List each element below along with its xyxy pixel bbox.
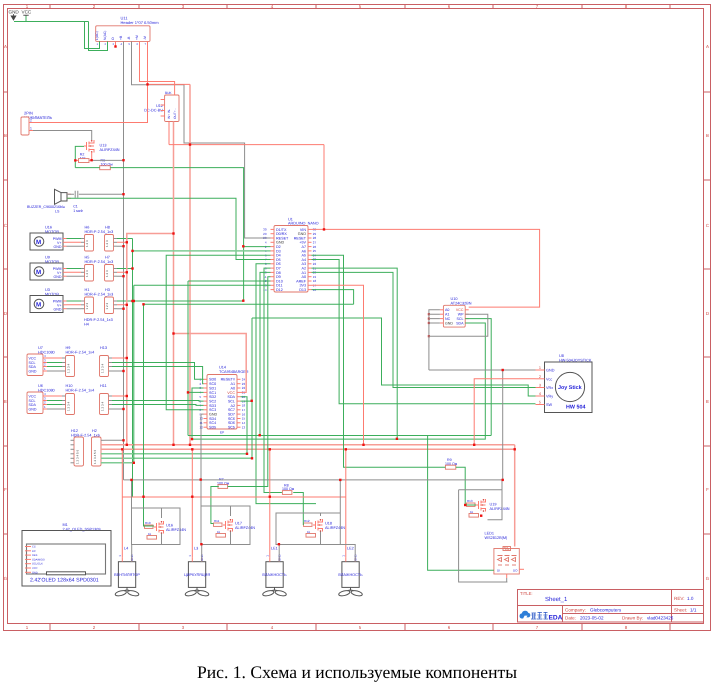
svg-text:ВЛАЖНОСТЬ: ВЛАЖНОСТЬ [262,573,287,577]
svg-text:L4: L4 [124,547,128,551]
svg-text:G: G [706,576,710,581]
resistor R13 (gate U19) [467,499,479,517]
wire motor3 V+ [67,304,127,306]
wire motor1 V+ drop [121,449,123,557]
svg-text:D: D [4,311,7,316]
svg-text:ALIRFZ44N: ALIRFZ44N [166,528,186,532]
wire DC-DC out short [168,122,170,145]
wire gnd loop C [276,480,355,562]
svg-text:Company:: Company: [565,608,586,613]
svg-text:A1: A1 [445,313,449,317]
svg-text:A0: A0 [230,386,235,390]
wire U10 SDA link [192,323,485,439]
resistor R8 [282,483,295,494]
svg-text:HW 504: HW 504 [566,405,585,411]
wire header pin3 stub [115,41,117,46]
svg-text:EDA: EDA [549,615,563,622]
transistor U19 IRFZ44N [476,499,510,512]
wire arduino D8 drop [260,272,271,435]
svg-text:1: 1 [539,366,541,370]
svg-text:REV:: REV: [674,596,685,601]
svg-text:3: 3 [539,384,541,388]
svg-text:1 2 3 4 5 6: 1 2 3 4 5 6 [93,449,97,464]
svg-text:4: 4 [539,392,541,396]
svg-text:2: 2 [30,119,32,123]
wire GND to header pin1 [14,22,100,49]
svg-text:A: A [4,44,7,49]
wire TCA VCC feed [174,334,247,392]
sensor U7 HDC1080 [27,346,55,376]
wire U10 gray tie loop [429,310,488,336]
connector H8 [105,226,118,252]
wire VCC to header pin2 [26,16,108,51]
svg-text:GND: GND [54,307,62,311]
wire LED1 VCC drop [514,445,516,547]
joystick U8 HW-504 [536,354,593,413]
wire green bus tail [133,496,144,498]
wire HDC1 SCL [47,363,204,380]
wire red feed to arduino VIN [169,145,324,230]
wire HDC1 VCC [47,357,127,359]
svg-text:Vcc: Vcc [546,377,552,381]
wire arduino A4 to joystick SW [312,260,536,404]
wire buzzer green to arduino D3 [67,198,271,259]
svg-text:L(AC): L(AC) [95,31,99,40]
svg-text:RESET#: RESET# [221,378,236,382]
svg-text:L3: L3 [194,547,198,551]
svg-text:AT24C32BN: AT24C32BN [451,301,472,305]
wire motor1 GND [67,245,124,247]
svg-text:N(AC): N(AC) [103,31,107,40]
svg-text:SD5: SD5 [209,426,216,430]
resistor R12 (gate U18) [304,519,316,537]
svg-text:ВЛАЖНОСТЬ: ВЛАЖНОСТЬ [338,573,363,577]
wire gnd loop D [459,480,508,582]
svg-text:H4: H4 [84,322,89,326]
svg-text:GND: GND [445,321,453,325]
svg-text:SDA: SDA [29,403,37,407]
wire header pin4 gray bus [123,41,125,480]
svg-text:M: M [36,302,41,309]
wire buzzer gray to bus [67,193,124,195]
connector H7 [105,256,118,282]
wire PWM green bus vertical [132,239,134,498]
svg-text:1 2 3: 1 2 3 [105,270,109,277]
wire LED DIN drop [428,436,494,571]
svg-text:SD3: SD3 [209,404,216,408]
svg-text:U13: U13 [100,144,107,148]
svg-text:ALIRFZ44N: ALIRFZ44N [490,507,510,511]
wire header pin7 to 2PIN [33,41,148,122]
svg-text:C1: C1 [73,205,78,209]
svg-text:GND: GND [54,245,62,249]
svg-text:Drawn By:: Drawn By: [622,616,643,621]
svg-text:1k: 1k [148,532,152,536]
svg-text:G: G [4,576,8,581]
eeprom U10 AT24C32BN [428,297,472,337]
wire H2 pin1 gray [105,439,124,441]
wire R8 gate line [264,268,304,525]
svg-text:1k: 1k [470,510,474,514]
wire trunk green D / arduino D10 [188,281,491,436]
svg-text:D13: D13 [299,288,306,292]
svg-text:U19: U19 [490,503,497,507]
svg-text:HDR-F-2.54_1x3: HDR-F-2.54_1x3 [85,292,114,296]
wire HDC1 GND [47,370,124,372]
svg-text:LE2: LE2 [347,547,354,551]
svg-text:+M: +M [135,35,139,40]
wire gnd loop B [201,480,250,562]
svg-text:C: C [4,223,7,228]
wire HDC2 GND [47,408,124,410]
svg-text:1 мкФ: 1 мкФ [73,209,83,213]
svg-text:SC4: SC4 [209,421,216,425]
svg-text:vlad0423426: vlad0423426 [647,616,674,621]
svg-text:D: D [706,311,709,316]
transistor U18 IRFZ44N [313,519,345,532]
svg-text:DC: DC [32,550,36,553]
wire joystick Vcc [474,379,535,445]
led LED1 WS2812B [485,532,525,579]
svg-text:B: B [4,133,7,138]
svg-text:HDR-F-2.54_1x3: HDR-F-2.54_1x3 [85,260,114,264]
svg-text:SW: SW [546,403,553,407]
wire motor3 GND [67,308,124,310]
wire arduino D6 drop [256,264,316,504]
svg-text:HDR-F-2.54_1x4: HDR-F-2.54_1x4 [66,350,95,354]
wire arduino A1 to joystick VRx [312,272,536,387]
svg-text:1 2 3 4: 1 2 3 4 [66,363,70,373]
svg-text:2023-05-02: 2023-05-02 [580,616,604,621]
svg-text:ALIRFZ44N: ALIRFZ44N [325,526,345,530]
svg-text:1 2 3: 1 2 3 [85,302,89,309]
svg-text:WS2812B(M): WS2812B(M) [485,536,509,540]
i2c mux U14 TCA9548ARGER [200,366,249,435]
wire TCA GND riser [201,414,204,506]
wire HDC2 VCC [47,395,127,397]
svg-text:DI: DI [497,569,500,573]
svg-text:IN+ IN-: IN+ IN- [167,109,171,119]
wire power rail 2 [101,448,515,450]
svg-text:5: 5 [539,401,541,405]
svg-text:1 2 3 4 5 6: 1 2 3 4 5 6 [76,449,80,464]
svg-text:H7: H7 [105,256,110,260]
svg-text:H3: H3 [105,288,110,292]
svg-text:LE1: LE1 [271,547,278,551]
svg-text:VCC: VCC [29,394,37,398]
svg-text:H11: H11 [100,384,107,388]
svg-text:13: 13 [242,425,246,429]
wire motor2 GND [67,275,124,277]
svg-text:22: 22 [242,386,246,390]
wire R6 green line to arduino D2 [75,168,270,301]
svg-text:1.0: 1.0 [687,596,694,601]
svg-text:VCC: VCC [227,391,235,395]
connector H3 [84,288,117,326]
svg-text:VCC: VCC [456,308,464,312]
svg-text:SDA: SDA [456,321,464,325]
regulator U12 DC-DC [144,91,179,122]
svg-text:24: 24 [242,378,246,382]
svg-text:ЦИРКУЛЯЦИЯ: ЦИРКУЛЯЦИЯ [184,573,210,577]
svg-text:1 2 3: 1 2 3 [85,270,89,277]
wire motor V+ tie [122,496,345,498]
motor L4 вентилятор [114,547,140,597]
motor LE1 влажность [262,547,287,597]
svg-text:VCC: VCC [22,10,32,15]
mcu U1 ARDUINO_NANO [263,218,318,293]
motor U3 [30,288,67,313]
svg-text:EP: EP [220,431,224,435]
connector H5 [81,256,113,282]
svg-text:SDA: SDA [227,395,235,399]
wire gnd line bottom [124,479,503,481]
wire motor2 PWM [67,268,133,270]
connector H1 [81,288,113,314]
svg-text:U18: U18 [325,522,332,526]
resistor R7 [217,478,230,489]
wire HDC2 SDA [47,404,204,407]
svg-text:SD7: SD7 [228,413,235,417]
wire trunk green C / arduino D4 [166,255,270,410]
wire SCL branch to joystick VRy [252,318,536,396]
resistor R9 [445,458,458,469]
svg-text:1 2 3 4: 1 2 3 4 [66,401,70,411]
wire gate pulldown vertical [75,146,84,167]
svg-text:U14: U14 [219,366,226,370]
svg-text:U17: U17 [235,522,242,526]
motor L3 циркуляция [184,547,210,597]
svg-text:SD6: SD6 [228,421,235,425]
wire joystick GND drop [502,370,504,480]
wire arduino A5 to R9 [312,255,446,467]
svg-text:H2: H2 [92,429,97,433]
svg-text:HDR-F-2.54_1x3: HDR-F-2.54_1x3 [84,318,113,322]
svg-text:1k: 1k [217,530,221,534]
svg-text:SD1: SD1 [209,386,216,390]
buzzer LS [27,189,71,213]
svg-text:14: 14 [242,421,246,425]
wire HDC2 SCL [47,400,204,403]
svg-text:GND: GND [29,369,37,373]
motor U9 [30,256,67,281]
EasyEDA logo [520,611,563,622]
connector 2PIN нажиматель [21,111,53,136]
connector H11 [100,384,113,415]
svg-text:H13: H13 [100,346,107,350]
svg-text:Joy Stick: Joy Stick [558,385,582,391]
svg-text:R11: R11 [214,519,220,523]
resistor R2 [79,153,90,163]
resistor R10 (gate U16) [145,521,157,539]
wire TCA SDA to H2 pin4 [241,397,248,454]
svg-text:M: M [36,269,41,276]
svg-text:1 2 3: 1 2 3 [105,240,109,247]
svg-text:F: F [4,487,7,492]
svg-text:F: F [706,487,709,492]
svg-text:ВЕНТИЛЯТОР: ВЕНТИЛЯТОР [114,573,140,577]
connector H6 [81,226,113,252]
motor U16 [30,226,67,251]
svg-text:OUT+ -: OUT+ - [173,108,177,119]
connector H2 [92,429,105,466]
svg-text:16: 16 [242,412,246,416]
wire header pin6 to DC-DC in [140,41,175,95]
svg-text:B: B [706,133,709,138]
svg-text:Header 1*07 6.50mm: Header 1*07 6.50mm [121,20,160,25]
svg-text:M: M [36,239,41,246]
svg-text:SDA/MOSI: SDA/MOSI [32,558,45,561]
wire trunk green B / arduino D13 [144,304,354,526]
svg-text:1/1: 1/1 [690,608,697,613]
header U11 [95,16,159,47]
wire U10 GND to joystick GND [429,336,536,370]
svg-text:RES: RES [32,554,38,557]
svg-text:R12: R12 [304,519,310,523]
transistor U16 IRFZ44N (fan driver) [154,521,186,534]
svg-text:A2: A2 [230,404,235,408]
wire power rail 1 [101,444,515,446]
svg-text:GND: GND [29,407,37,411]
sensor U6 HDC1080 [27,384,55,414]
svg-text:SD2: SD2 [209,395,216,399]
svg-text:Date:: Date: [565,616,576,621]
svg-text:1: 1 [30,127,32,131]
resistor R11 (gate U17) [214,519,226,537]
svg-text:C: C [706,223,709,228]
svg-text:GND: GND [54,275,62,279]
wire arduino D13 loop [312,290,354,305]
oled M1 display [22,523,111,586]
wire H2 pin6 green [101,462,134,464]
svg-text:BUK: BUK [165,91,172,95]
svg-text:TCA9548ARGER: TCA9548ARGER [219,370,249,374]
svg-text:ARDUINO_NANO: ARDUINO_NANO [288,222,319,226]
svg-text:Glebcomputers: Glebcomputers [590,608,622,613]
wire motor2 V+ drop [191,449,193,557]
transistor U13 IRFZ44N [84,140,120,153]
svg-text:2.42'OLED 128x64 SPD0301: 2.42'OLED 128x64 SPD0301 [30,578,99,584]
motor LE2 влажность [338,547,363,597]
wire R9 to U19 gate [456,467,476,505]
svg-text:BUZZER_C9600216bla: BUZZER_C9600216bla [27,205,65,209]
svg-text:U10: U10 [451,297,458,301]
svg-text:E: E [706,399,709,404]
wire arduino D9 drop to R7 [211,277,271,524]
ground GND flag [9,10,20,21]
svg-text:SC5: SC5 [228,426,235,430]
wire motor1 V+ [67,241,127,243]
wire HDC1 SDA [47,367,204,384]
svg-text:GND: GND [546,369,555,373]
svg-text:A0: A0 [445,308,449,312]
svg-text:Sheet:: Sheet: [674,608,687,613]
wire arduino A2 drop [312,268,398,439]
svg-text:SCL/CLK: SCL/CLK [32,563,43,566]
svg-text:Sheet_1: Sheet_1 [545,596,568,603]
svg-text:O: O [111,37,115,40]
svg-text:VCC: VCC [29,356,37,360]
svg-text:U16: U16 [166,524,173,528]
wire H2 pin4 green [101,453,247,455]
wire H2 pin5 green [101,457,252,459]
transistor U17 IRFZ44N [223,519,255,532]
wire R2 gate line [75,152,91,160]
svg-text:VRx: VRx [546,386,553,390]
title block [518,590,704,623]
svg-text:H8: H8 [105,226,110,230]
svg-text:ALIRFZ44N: ALIRFZ44N [100,148,120,152]
svg-text:R10: R10 [145,521,151,525]
svg-text:LED1: LED1 [485,532,495,536]
wire DC-DC out long drop [173,122,175,445]
svg-text:1 2 3: 1 2 3 [105,302,109,309]
svg-text:GND: GND [298,232,307,236]
svg-text:1 2 3: 1 2 3 [85,240,89,247]
wire motor2 V+ [67,271,127,273]
svg-text:D12: D12 [276,288,283,292]
svg-text:1 2 3 4: 1 2 3 4 [100,363,104,373]
svg-text:1 2 3 4: 1 2 3 4 [100,401,104,411]
wire TCA SCL trunk [241,318,253,458]
wire gnd loop A [132,480,181,562]
wire V+ bus vertical [127,234,174,445]
resistor R6 [100,159,114,170]
svg-text:GND: GND [209,413,218,417]
wire D3 line from PWM bus [133,250,271,252]
svg-text:2: 2 [539,375,541,379]
svg-text:GND: GND [9,10,20,15]
svg-text:+B: +B [119,35,123,40]
svg-text:NC: NC [445,317,451,321]
svg-text:ALIRFZ44N: ALIRFZ44N [235,526,255,530]
wire branch pin7 to long red drop [148,83,191,85]
svg-text:WP: WP [458,313,464,317]
connector H13 [100,346,113,377]
wire U10 SCL link [465,319,491,436]
svg-text:E: E [4,399,7,404]
capacitor C1 [73,191,83,213]
wire trunk green A / arduino D11 [134,285,271,463]
wire arduino 3V3 to rail [312,285,364,445]
wire motor1 PWM [67,238,133,240]
connector H10 [62,384,94,415]
svg-text:HDR-F-2.54_1x4: HDR-F-2.54_1x4 [66,388,95,392]
power flag VCC [22,10,32,22]
svg-text:HDR-F-2.54_1x3: HDR-F-2.54_1x3 [85,230,114,234]
svg-text:SD0: SD0 [209,378,216,382]
connector H12 [71,429,100,466]
svg-text:GND: GND [32,571,38,574]
svg-text:1k: 1k [307,530,311,534]
svg-text:CS: CS [32,546,36,549]
svg-text:GND: GND [276,241,285,245]
wire motor4 V+ drop [345,449,347,557]
svg-text:LS: LS [55,209,60,213]
connector H9 [62,346,94,377]
svg-text:R13: R13 [467,499,473,503]
svg-text:VRy: VRy [546,395,553,399]
wire header pin5 to arduino GND [132,41,271,238]
svg-text:A: A [706,44,709,49]
svg-text:VCC: VCC [32,567,38,570]
svg-text:TITLE:: TITLE: [520,591,533,596]
wire motor3 PWM [67,300,133,302]
wire motor3 V+ drop [269,449,271,557]
svg-text:18: 18 [242,404,246,408]
svg-text:SDA: SDA [29,365,37,369]
wire 2PIN pin1 to U13 drain [33,131,92,141]
